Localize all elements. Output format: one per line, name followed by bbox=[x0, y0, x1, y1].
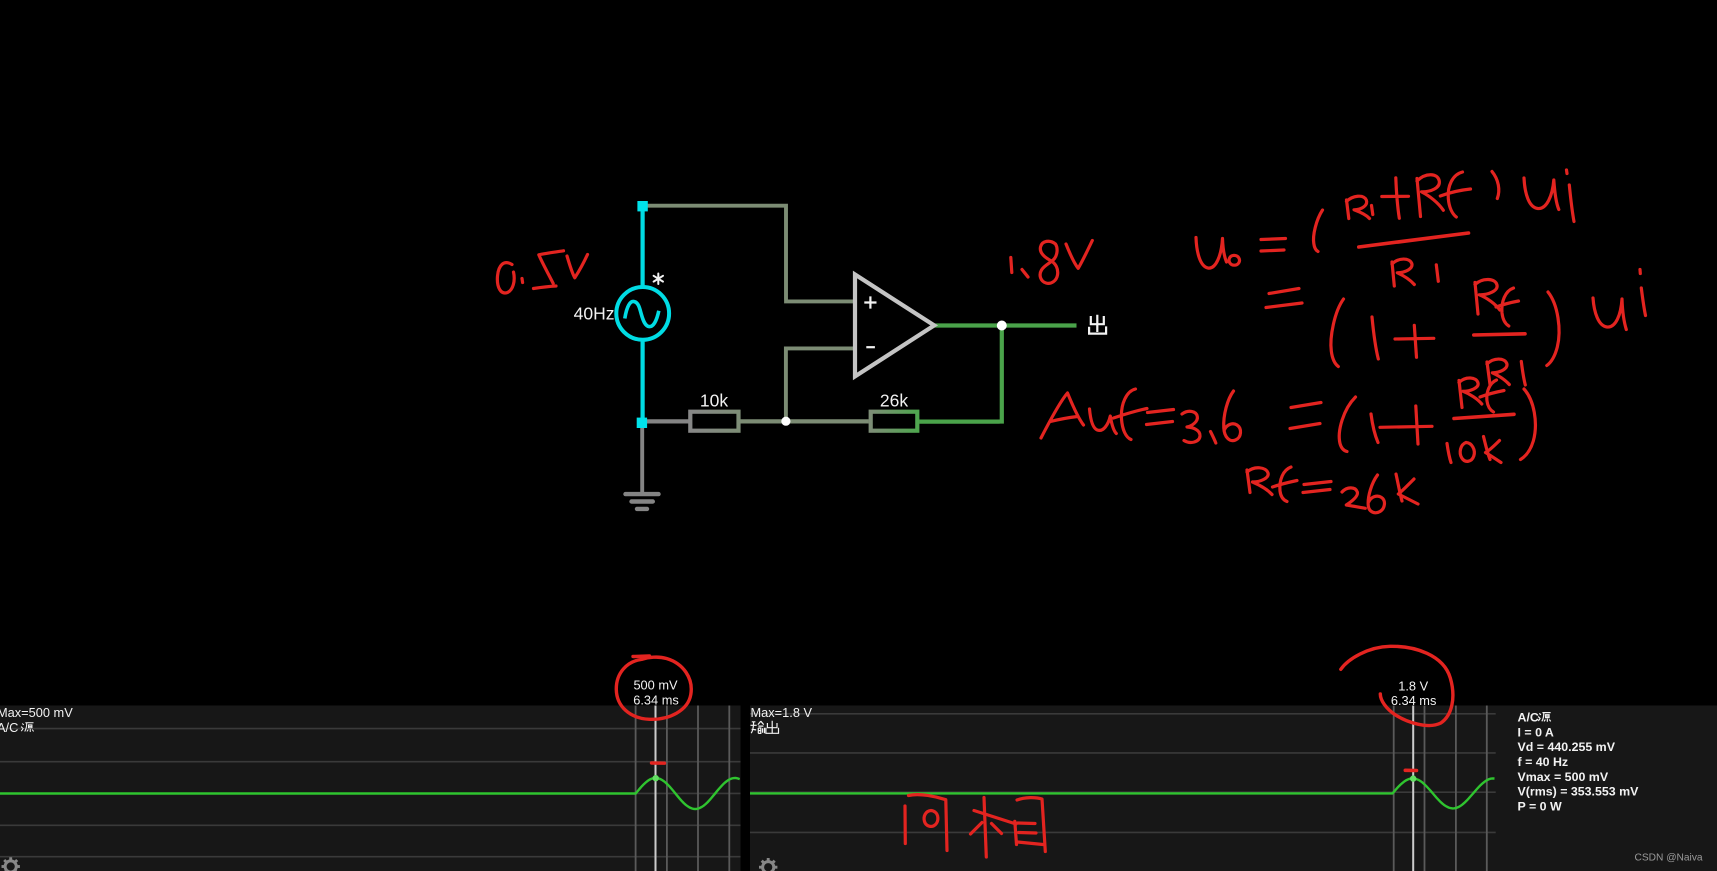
node square bottom (source terminal) bbox=[637, 418, 647, 428]
handwritten 1.8V: digit 1 bbox=[1011, 258, 1012, 273]
Auf formula: u bbox=[1090, 409, 1117, 434]
resistor Rf 26k body bbox=[871, 412, 918, 431]
gear icon scope 2 bbox=[759, 858, 777, 871]
formula: second equals bbox=[1266, 289, 1302, 308]
handwritten 1.8V: letter V bbox=[1066, 241, 1092, 269]
wire 10k right lead to junction (sage) bbox=[740, 419, 786, 423]
op-amp U1 triangle bbox=[855, 275, 934, 377]
junction dot (inverting input node) bbox=[781, 417, 790, 426]
scope 1 horizontal gridlines bbox=[0, 729, 741, 857]
glyph 出 (output label) bbox=[1089, 315, 1106, 334]
handwritten 同 : left stroke bbox=[903, 806, 906, 844]
formula line2: close paren bbox=[1547, 292, 1559, 366]
Rf=26k: 2 bbox=[1342, 488, 1365, 508]
svg-text:6.34 ms: 6.34 ms bbox=[633, 693, 679, 708]
svg-text:26k: 26k bbox=[880, 390, 908, 410]
ground wire stem bbox=[640, 424, 644, 494]
AC source cyan wire top bbox=[640, 204, 644, 288]
svg-text:40Hz: 40Hz bbox=[574, 304, 615, 324]
handwritten 0.5V: digit 5 bbox=[534, 251, 564, 289]
glyph 源 (info panel) bbox=[1538, 713, 1551, 722]
handwritten 0.5V: letter V bbox=[567, 255, 588, 278]
scope 2 red peak tick bbox=[1405, 768, 1416, 772]
Auf formula: comma bbox=[1211, 432, 1216, 444]
scope 1 cursor line bbox=[655, 706, 657, 871]
Auf formula: small equals bbox=[1147, 410, 1174, 425]
scope 2 horizontal gridlines bbox=[750, 714, 1496, 833]
asterisk marker bbox=[654, 274, 663, 285]
svg-text:CSDN @Naiva: CSDN @Naiva bbox=[1635, 853, 1703, 864]
AC source cyan wire bottom bbox=[640, 339, 644, 423]
formula: open paren numerator bbox=[1314, 210, 1323, 252]
Rf=26k: equals bbox=[1303, 482, 1331, 493]
Auf formula: plus bbox=[1380, 406, 1432, 444]
glyph 输出 (scope 2 label) bbox=[751, 721, 779, 734]
Auf formula: 1 bbox=[1371, 414, 1378, 443]
scope 2 red circle around cursor values bbox=[1341, 646, 1453, 725]
formula numerator: close paren bbox=[1492, 172, 1499, 199]
svg-text:V(rms) = 353.553 mV: V(rms) = 353.553 mV bbox=[1518, 785, 1640, 799]
ground symbol bbox=[626, 494, 659, 509]
handwritten 同 : inner loop bbox=[924, 811, 938, 827]
SCOPE-WAVES bbox=[0, 775, 1495, 809]
scope 2 sample dot on peak bbox=[1410, 775, 1416, 781]
AC source sine symbol bbox=[625, 301, 659, 326]
op-amp plus sign bbox=[864, 296, 876, 308]
scope 1 sample dot on peak bbox=[653, 775, 659, 781]
handwritten 相 : eye box top and right bbox=[1017, 798, 1045, 852]
scope 2 waveform (output, 1.8V) bbox=[750, 778, 1495, 808]
Auf formula: open paren bbox=[1339, 397, 1355, 452]
wire junction to 26k left lead (sage) bbox=[786, 419, 869, 423]
wire top node to +input (sage) bbox=[645, 206, 854, 302]
formula numerator: plus bbox=[1382, 178, 1409, 219]
svg-text:Vd = 440.255 mV: Vd = 440.255 mV bbox=[1518, 740, 1616, 754]
Auf formula: 6 bbox=[1224, 391, 1241, 441]
scope 1 red peak tick bbox=[652, 761, 665, 765]
Rf=26k: k bbox=[1396, 474, 1418, 504]
svg-text:P = 0 W: P = 0 W bbox=[1518, 799, 1562, 813]
scope panel 1 background (A/C source trace) bbox=[0, 706, 741, 871]
scope 1 waveform (A/C source, 500mV) bbox=[0, 778, 740, 809]
output junction dot bbox=[997, 321, 1007, 331]
wire junction to -input (sage) bbox=[786, 348, 854, 419]
handwritten 相 : wood radical cross bbox=[974, 811, 1016, 825]
scope panel 2 background (output trace) bbox=[750, 706, 1717, 871]
formula line2: Ui bbox=[1593, 270, 1646, 330]
SCOPES-BACKGROUNDS bbox=[0, 706, 1717, 871]
formula Uo: subscript o bbox=[1229, 255, 1239, 265]
Rf=26k: R bbox=[1247, 468, 1272, 495]
Auf formula: fraction bar bbox=[1454, 414, 1514, 418]
glyph 源 (scope 1 label) bbox=[21, 723, 34, 732]
node square top (source terminal) bbox=[637, 201, 647, 211]
gear icon scope 1 bbox=[2, 857, 20, 871]
CIRCUIT bbox=[574, 201, 1106, 509]
scope 2 cursor line bbox=[1412, 706, 1414, 871]
RED-ANNOTATIONS bbox=[497, 170, 1645, 857]
formula line2: open paren bbox=[1331, 299, 1344, 367]
formula line2: fraction bar 2 bbox=[1474, 334, 1525, 335]
scope 1 red circle around cursor values bbox=[616, 656, 691, 719]
svg-text:Max=500 mV: Max=500 mV bbox=[0, 705, 73, 720]
svg-text:6.34 ms: 6.34 ms bbox=[1391, 693, 1437, 708]
Rf=26k: f bbox=[1273, 467, 1298, 502]
handwritten 0.5V: decimal point bbox=[520, 279, 524, 283]
Auf formula: f bbox=[1114, 389, 1148, 440]
formula numerator: Rf bbox=[1417, 172, 1471, 217]
Rf=26k: 6 bbox=[1368, 475, 1384, 513]
svg-text:f = 40 Hz: f = 40 Hz bbox=[1518, 755, 1569, 769]
svg-text:500 mV: 500 mV bbox=[633, 677, 678, 692]
formula line2: Rf numerator bbox=[1475, 279, 1519, 326]
wire source bottom node to 10k (gray) bbox=[645, 419, 689, 423]
formula line2: digit 1 bbox=[1372, 317, 1378, 359]
formula: Ui line1 bbox=[1524, 170, 1574, 222]
formula: fraction bar 1 bbox=[1359, 233, 1469, 247]
AC source V1 circle bbox=[616, 287, 669, 340]
resistor R1 10k body bbox=[690, 412, 738, 431]
op-amp minus sign bbox=[866, 346, 875, 348]
handwritten 1.8V: digit 8 bbox=[1040, 241, 1058, 283]
SCOPE-GRIDS bbox=[0, 706, 1496, 871]
scope 2 vertical gridlines bbox=[1394, 706, 1487, 871]
svg-text:A/C: A/C bbox=[0, 720, 18, 735]
Auf formula: Rf numerator bbox=[1459, 378, 1504, 412]
handwritten 相 : eye inner bars bbox=[1018, 823, 1044, 845]
formula denominator: R1 bbox=[1392, 259, 1438, 286]
svg-text:1.8 V: 1.8 V bbox=[1398, 678, 1428, 693]
formula line2: plus bbox=[1395, 325, 1434, 357]
svg-text:I = 0 A: I = 0 A bbox=[1518, 725, 1554, 739]
scope 1 vertical gridlines bbox=[636, 706, 730, 871]
handwritten 相 : wood radical vertical bbox=[984, 798, 986, 858]
formula: first equals bbox=[1261, 239, 1286, 252]
formula line2: R1 denominator bbox=[1487, 359, 1525, 385]
svg-text:A/C: A/C bbox=[1518, 711, 1539, 725]
svg-text:Vmax = 500 mV: Vmax = 500 mV bbox=[1518, 770, 1609, 784]
Auf formula: 3 bbox=[1182, 411, 1200, 442]
handwritten 同 : top and right stroke bbox=[909, 795, 948, 851]
Auf formula: A bbox=[1041, 393, 1084, 438]
Auf formula: big equals bbox=[1290, 403, 1321, 429]
handwritten 0.5V: digit 0 bbox=[497, 263, 514, 293]
op-amp output wire (green) bbox=[933, 323, 1077, 327]
svg-text:Max=1.8 V: Max=1.8 V bbox=[751, 705, 813, 720]
formula Uo: U bbox=[1196, 238, 1227, 269]
handwritten 相 : wood radical diagonals bbox=[971, 823, 1002, 835]
wire 26k right lead to output corner (green) bbox=[919, 326, 1002, 424]
handwritten 1.8V: comma bbox=[1022, 270, 1028, 278]
svg-text:10k: 10k bbox=[700, 390, 728, 410]
SCOPE-TEXT bbox=[0, 677, 1703, 871]
Auf formula: 10k denominator bbox=[1447, 437, 1501, 463]
handwritten 相 : eye box left bbox=[1015, 821, 1017, 844]
formula numerator: R1 bbox=[1347, 196, 1373, 218]
Auf formula: close paren bbox=[1521, 389, 1536, 460]
